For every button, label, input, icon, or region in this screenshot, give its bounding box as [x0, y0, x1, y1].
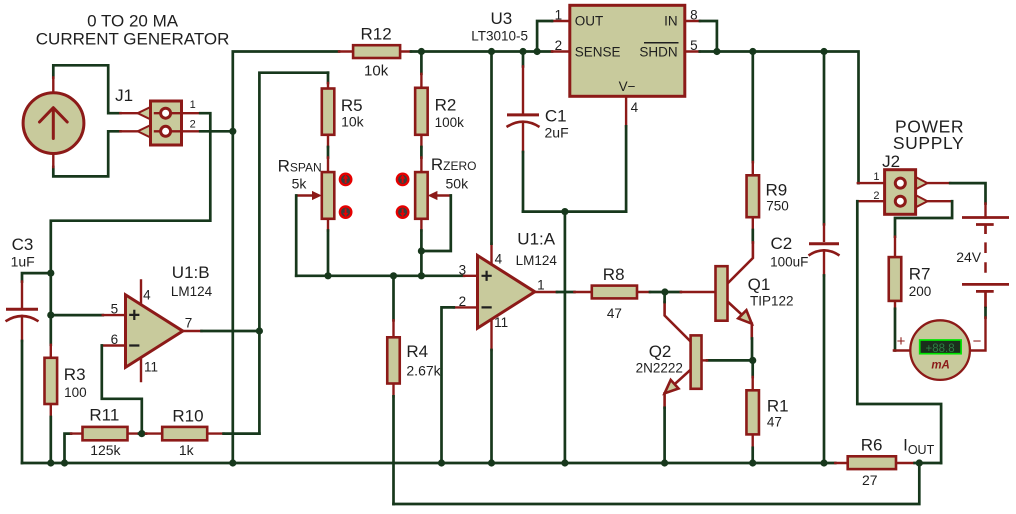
connector J2 — [857, 152, 952, 214]
svg-text:SUPPLY: SUPPLY — [893, 133, 964, 153]
svg-text:1: 1 — [190, 99, 196, 111]
resistor R12 — [339, 25, 411, 80]
svg-text:R5: R5 — [341, 96, 363, 115]
node — [661, 459, 668, 466]
wire — [919, 462, 941, 465]
node — [916, 459, 923, 466]
resistor R4 — [387, 276, 441, 504]
svg-text:R9: R9 — [766, 180, 788, 199]
capacitor C2 — [770, 52, 839, 464]
node — [561, 208, 568, 215]
node — [47, 459, 54, 466]
wire — [700, 21, 717, 52]
power supply label — [893, 116, 964, 152]
node — [229, 128, 236, 135]
svg-text:J2: J2 — [882, 152, 900, 171]
svg-text:1k: 1k — [179, 442, 195, 458]
svg-text:8: 8 — [690, 7, 698, 22]
wire — [564, 212, 567, 463]
svg-text:100: 100 — [64, 385, 87, 400]
wire — [200, 130, 233, 133]
svg-text:R3: R3 — [64, 365, 86, 384]
wire — [894, 309, 897, 351]
svg-text:SENSE: SENSE — [575, 44, 621, 59]
ammeter mA — [894, 320, 982, 380]
node — [47, 270, 54, 277]
transistor Q1 — [681, 242, 794, 338]
svg-text:47: 47 — [767, 414, 782, 429]
wire — [420, 231, 423, 276]
svg-text:2.67k: 2.67k — [406, 362, 441, 378]
regulator U3 — [471, 5, 700, 126]
wire — [523, 210, 626, 213]
resistor R5 — [322, 73, 365, 147]
svg-text:LM124: LM124 — [516, 253, 558, 268]
wire — [490, 52, 493, 244]
svg-text:5: 5 — [111, 301, 119, 316]
title text — [36, 11, 230, 48]
svg-text:CURRENT GENERATOR: CURRENT GENERATOR — [36, 30, 230, 49]
connector J1 — [115, 86, 200, 145]
svg-text:+: + — [897, 333, 906, 350]
capacitor C3 — [6, 235, 51, 463]
svg-text:47: 47 — [607, 306, 622, 321]
wire — [139, 432, 146, 435]
node — [61, 459, 68, 466]
svg-text:27: 27 — [862, 472, 878, 488]
svg-text:U3: U3 — [491, 9, 513, 28]
svg-text:mA: mA — [931, 359, 950, 371]
svg-text:2: 2 — [459, 294, 467, 309]
svg-text:Q2: Q2 — [649, 342, 672, 361]
wire — [233, 52, 339, 464]
wire — [663, 408, 666, 463]
wire — [420, 147, 423, 158]
svg-text:1: 1 — [537, 277, 545, 292]
wire — [984, 308, 987, 318]
node — [256, 327, 263, 334]
svg-text:IN: IN — [664, 13, 678, 28]
wire (main input line) — [296, 274, 464, 277]
wire — [895, 201, 952, 237]
svg-text:0 TO 20 MA: 0 TO 20 MA — [87, 11, 179, 30]
svg-text:J1: J1 — [115, 86, 133, 105]
resistor R8 — [574, 265, 650, 321]
resistor R9 — [747, 52, 789, 231]
svg-text:R7: R7 — [909, 265, 931, 284]
svg-text:1: 1 — [555, 7, 563, 22]
wire — [51, 113, 211, 273]
svg-text:2N2222: 2N2222 — [636, 361, 683, 376]
svg-text:TIP122: TIP122 — [750, 294, 794, 309]
svg-text:1uF: 1uF — [11, 253, 35, 269]
svg-text:200: 200 — [909, 284, 932, 299]
svg-text:U1:B: U1:B — [172, 263, 210, 282]
node — [561, 459, 568, 466]
svg-text:4: 4 — [495, 251, 503, 266]
node — [519, 48, 526, 55]
svg-text:C3: C3 — [12, 235, 34, 254]
node — [438, 459, 445, 466]
pot button up (RSPAN) — [339, 173, 353, 187]
node — [390, 272, 397, 279]
node — [324, 272, 331, 279]
svg-text:50k: 50k — [446, 175, 470, 191]
wire — [751, 230, 754, 242]
wire (lower return line) — [394, 463, 920, 504]
pot button down (RSPAN) — [339, 205, 353, 219]
resistor R10 — [146, 406, 224, 458]
svg-text:−: − — [973, 333, 982, 350]
svg-text:R2: R2 — [435, 96, 457, 115]
resistor R1 — [746, 360, 788, 463]
svg-text:10k: 10k — [341, 113, 365, 129]
wire — [202, 330, 260, 333]
svg-text:R6: R6 — [861, 436, 883, 455]
node — [749, 48, 756, 55]
svg-text:2: 2 — [873, 190, 879, 202]
node — [418, 272, 425, 279]
current source CS1 — [23, 78, 84, 168]
svg-text:2uF: 2uF — [545, 124, 569, 140]
svg-text:SHDN: SHDN — [639, 44, 677, 59]
node — [661, 288, 668, 295]
wire — [625, 126, 628, 211]
wire — [537, 21, 552, 52]
svg-text:11: 11 — [494, 315, 508, 330]
wire — [490, 350, 493, 463]
node — [488, 459, 495, 466]
svg-text:+88.8: +88.8 — [926, 343, 955, 355]
svg-text:R12: R12 — [361, 25, 392, 44]
svg-text:5k: 5k — [292, 175, 308, 191]
svg-text:2: 2 — [555, 38, 563, 53]
svg-text:4: 4 — [631, 100, 639, 115]
node — [488, 48, 495, 55]
wire (bottom rail) — [22, 462, 835, 465]
node — [138, 430, 145, 437]
svg-text:24V: 24V — [956, 249, 982, 265]
wire — [102, 346, 142, 434]
wire — [663, 292, 666, 302]
node — [418, 48, 425, 55]
svg-text:R4: R4 — [406, 342, 428, 361]
node — [534, 48, 541, 55]
svg-text:4: 4 — [143, 287, 151, 302]
svg-text:R10: R10 — [172, 406, 203, 425]
capacitor C1 — [507, 52, 569, 212]
svg-text:C1: C1 — [545, 106, 567, 125]
resistor R11 — [65, 406, 140, 464]
wire — [53, 65, 120, 113]
node — [713, 48, 720, 55]
svg-text:R1: R1 — [767, 396, 789, 415]
wire — [327, 231, 330, 276]
node — [229, 459, 236, 466]
svg-text:R11: R11 — [89, 406, 119, 425]
transistor Q2 — [636, 302, 707, 408]
svg-text:2: 2 — [190, 118, 196, 130]
wire — [751, 339, 754, 361]
wire — [224, 432, 260, 435]
op-amp U1:B — [102, 263, 213, 381]
svg-text:10k: 10k — [364, 62, 389, 79]
wire — [259, 73, 328, 434]
wire — [442, 307, 454, 463]
resistor R3 — [45, 345, 87, 463]
svg-text:LT3010-5: LT3010-5 — [471, 28, 528, 43]
wire — [421, 196, 450, 252]
svg-text:3: 3 — [459, 262, 467, 277]
node — [749, 357, 756, 364]
svg-text:V−: V− — [619, 79, 636, 94]
svg-text:1: 1 — [873, 171, 879, 183]
wire — [295, 196, 298, 276]
wire — [411, 50, 552, 53]
svg-text:U1:A: U1:A — [517, 230, 555, 249]
svg-text:750: 750 — [766, 198, 789, 213]
wire — [327, 147, 330, 158]
svg-text:100uF: 100uF — [770, 254, 808, 269]
node — [418, 247, 425, 254]
svg-text:Q1: Q1 — [748, 275, 771, 294]
svg-text:R8: R8 — [603, 265, 625, 284]
node — [820, 48, 827, 55]
wire — [857, 201, 941, 463]
wire — [51, 314, 103, 317]
svg-text:11: 11 — [144, 360, 158, 375]
svg-text:7: 7 — [185, 315, 193, 330]
wire — [707, 359, 753, 362]
resistor R7 — [889, 237, 931, 309]
pot button up (RZERO) — [396, 173, 410, 187]
wire — [650, 291, 681, 294]
potentiometer RZERO — [415, 155, 476, 231]
wire — [970, 318, 986, 351]
svg-text:OUT: OUT — [575, 13, 604, 28]
node — [47, 312, 54, 319]
battery BT1 24V — [956, 204, 1009, 309]
potentiometer RSPAN — [278, 156, 335, 230]
svg-text:LM124: LM124 — [171, 284, 213, 299]
op-amp U1:A — [454, 230, 558, 350]
resistor R2 — [415, 52, 464, 148]
svg-text:6: 6 — [111, 332, 119, 347]
svg-text:100k: 100k — [435, 115, 465, 130]
wire — [950, 183, 985, 203]
resistor R6 — [835, 436, 919, 488]
node — [820, 459, 827, 466]
node — [749, 459, 756, 466]
wire — [700, 52, 859, 184]
svg-text:125k: 125k — [90, 442, 121, 458]
wire — [53, 131, 120, 176]
svg-text:C2: C2 — [771, 234, 793, 253]
svg-text:5: 5 — [690, 38, 698, 53]
wire — [557, 291, 574, 294]
pot button down (RZERO) — [396, 205, 410, 219]
wire — [49, 273, 52, 345]
